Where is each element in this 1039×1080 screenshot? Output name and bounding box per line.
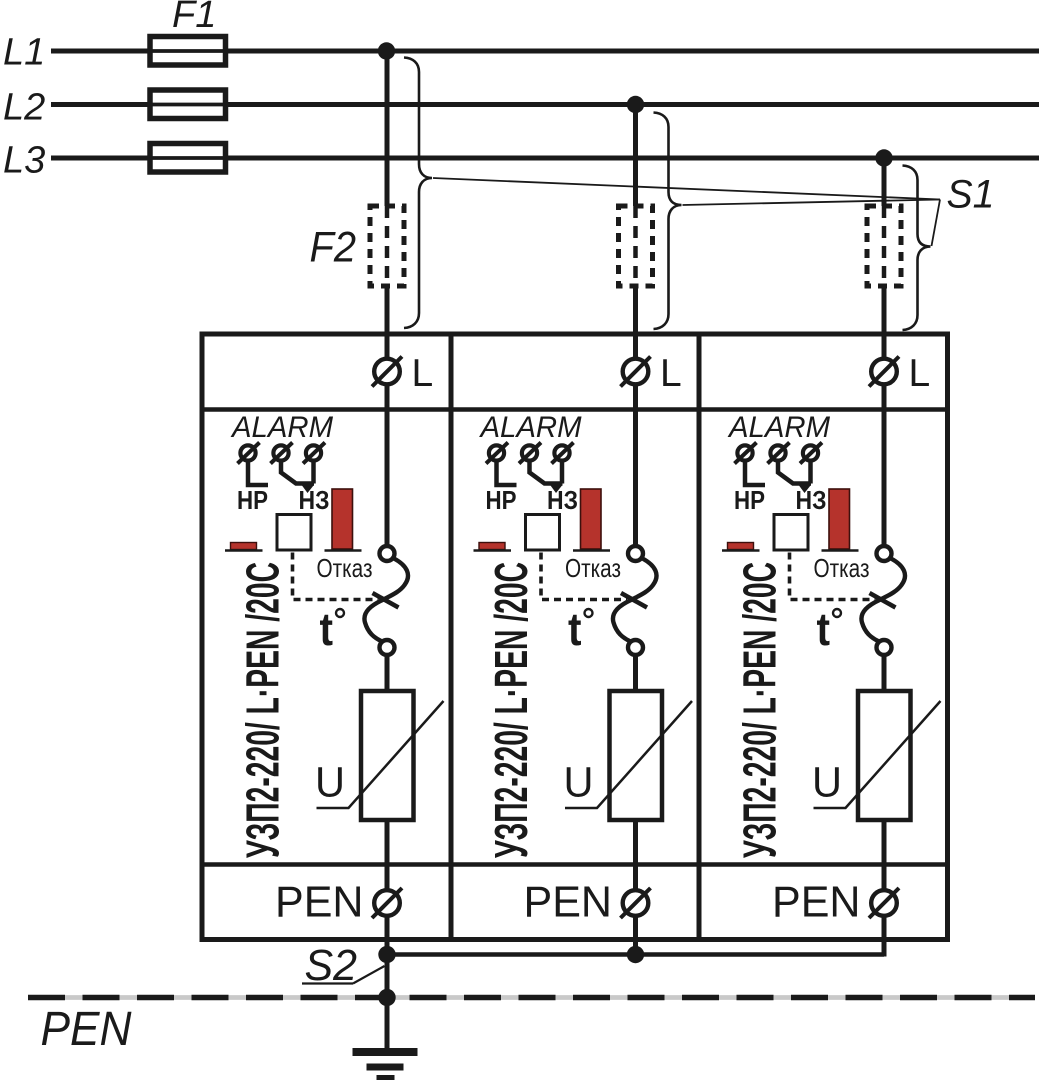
- PEN bus wire: [387, 952, 884, 957]
- wire L3 drop: [882, 158, 887, 206]
- fan line 2: [683, 200, 941, 206]
- svg-text:L3: L3: [3, 140, 45, 182]
- wire L1 drop: [385, 51, 390, 206]
- svg-text:S1: S1: [947, 173, 995, 217]
- svg-text:F1: F1: [172, 0, 216, 36]
- svg-text:PEN: PEN: [41, 1002, 133, 1056]
- fan line 3: [932, 200, 941, 247]
- wire L2 drop: [633, 105, 638, 207]
- phase line L2: [51, 102, 1039, 107]
- node L3 junction: [875, 149, 892, 166]
- fuse F1b: [150, 90, 226, 119]
- node L1 junction: [378, 42, 395, 59]
- svg-text:F2: F2: [310, 224, 357, 272]
- box line below L terminals: [202, 407, 948, 412]
- brace phase 2: [654, 113, 682, 330]
- box line above PEN terminals: [202, 862, 948, 867]
- SPD module 1: [225, 206, 444, 941]
- SPD module 2: [474, 206, 693, 941]
- brace phase 3: [903, 166, 931, 331]
- node PEN tap: [378, 989, 395, 1006]
- svg-text:L2: L2: [3, 87, 45, 129]
- node bus col2: [627, 946, 644, 963]
- wire col1 down: [385, 939, 390, 1048]
- brace phase 1: [404, 58, 432, 329]
- divider module 2/3: [697, 334, 702, 940]
- fan line 1: [433, 178, 940, 200]
- wire col3 to bus: [882, 939, 887, 957]
- phase line L1: [51, 49, 1039, 54]
- fuse F1a: [150, 37, 226, 66]
- fuse F1c: [150, 144, 226, 173]
- svg-text:L1: L1: [3, 32, 45, 74]
- node bus col1: [378, 946, 395, 963]
- wire to ground: [385, 997, 390, 1048]
- node L2 junction: [627, 96, 644, 113]
- ground: [353, 1048, 418, 1056]
- SPD module 3: [722, 206, 941, 941]
- wire col2 to bus: [633, 939, 638, 955]
- phase line L3: [51, 156, 1039, 161]
- enclosure box: [202, 334, 948, 940]
- PEN conductor gray underlay: [28, 995, 1035, 1000]
- PEN conductor dashed: [28, 995, 1035, 1000]
- divider module 1/2: [449, 334, 454, 940]
